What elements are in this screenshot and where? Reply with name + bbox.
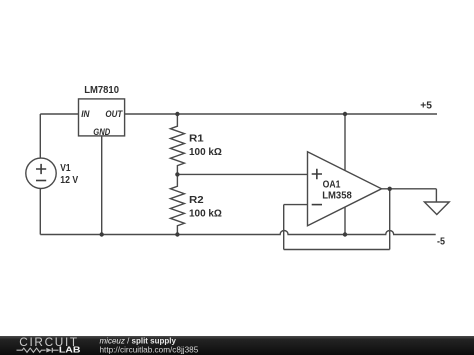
- voltage source V1: [26, 158, 79, 188]
- regulator U1 LM7810: [79, 85, 125, 137]
- node R2 bottom junction: [175, 232, 179, 236]
- node R1 top junction: [175, 112, 179, 116]
- svg-text:+5: +5: [420, 101, 432, 112]
- wire IN horizontal: [40, 113, 78, 115]
- svg-text:IN: IN: [81, 109, 90, 119]
- node GND pin junction: [100, 232, 104, 236]
- wire middle node to op-amp plus input: [177, 173, 307, 175]
- wire op-amp V+ pin: [344, 114, 346, 171]
- svg-text:-5: -5: [437, 237, 445, 248]
- wire feedback right vertical: [389, 189, 391, 250]
- svg-text:R1: R1: [189, 134, 204, 145]
- ground: [424, 202, 449, 215]
- wire feedback left vertical: [283, 205, 285, 250]
- wire V1 bottom vertical: [39, 189, 41, 235]
- node output junction: [388, 187, 392, 191]
- node V+ junction: [343, 112, 347, 116]
- node V- junction: [343, 232, 347, 236]
- resistor R1: [170, 114, 222, 174]
- svg-text:V1: V1: [60, 163, 71, 174]
- svg-text:R2: R2: [189, 195, 204, 206]
- svg-text:100 kΩ: 100 kΩ: [189, 209, 222, 220]
- wire bottom -5 rail with hops: [40, 231, 435, 235]
- svg-text:LM358: LM358: [322, 191, 352, 202]
- svg-text:100 kΩ: 100 kΩ: [189, 147, 222, 158]
- node middle divider junction: [175, 172, 179, 176]
- wire top +5 rail: [125, 113, 437, 115]
- svg-text:GND: GND: [93, 127, 110, 137]
- footer bar: [0, 335, 474, 355]
- resistor R2: [170, 174, 222, 234]
- wire op-amp output: [382, 188, 437, 190]
- svg-text:LM7810: LM7810: [84, 85, 119, 96]
- svg-text:miceuz / split supply: miceuz / split supply: [100, 336, 177, 345]
- wire feedback bottom horizontal: [284, 249, 390, 251]
- wire op-amp V- pin: [344, 207, 346, 234]
- op-amp OA1: [308, 152, 382, 226]
- svg-text:OA1: OA1: [323, 180, 341, 191]
- wire left vertical to V1 top: [39, 114, 41, 158]
- wire op-amp minus input: [284, 204, 308, 206]
- footer logo resistor-diode art: [17, 348, 46, 352]
- svg-text:http://circuitlab.com/c8jj385: http://circuitlab.com/c8jj385: [100, 345, 199, 354]
- wire to ground stub: [435, 189, 437, 202]
- svg-text:LAB: LAB: [59, 345, 81, 354]
- svg-text:12 V: 12 V: [60, 175, 78, 186]
- wire GND pin vertical: [101, 136, 103, 235]
- svg-text:OUT: OUT: [105, 109, 123, 119]
